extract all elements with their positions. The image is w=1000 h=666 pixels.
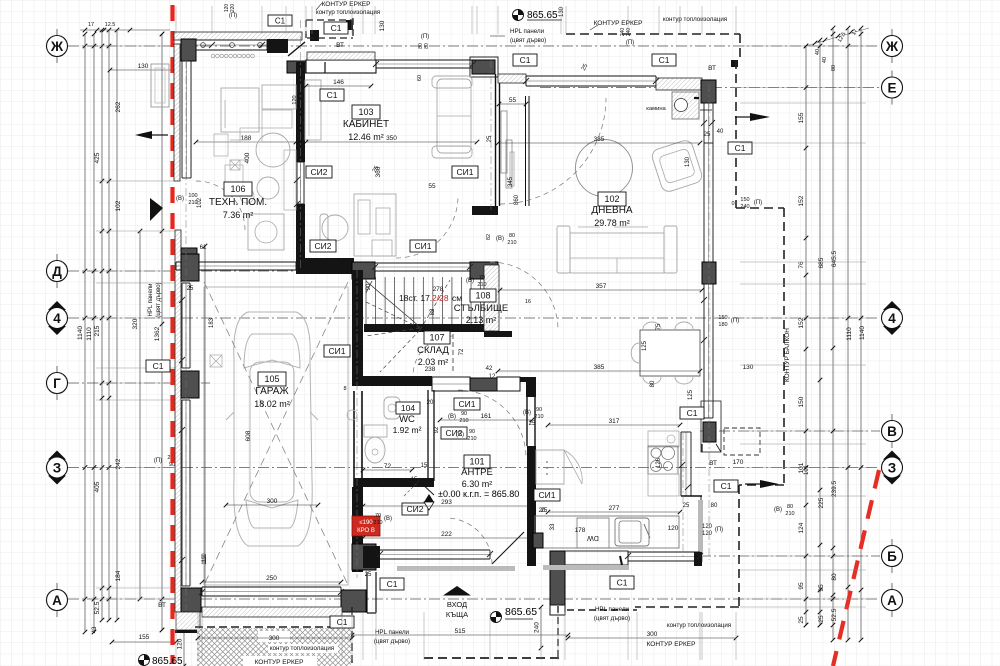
svg-text:608: 608 <box>245 430 252 441</box>
left top small dims <box>80 22 170 32</box>
column top-left corner <box>181 39 196 61</box>
svg-text:80: 80 <box>424 43 430 49</box>
sliding door panels <box>501 111 514 188</box>
svg-text:контур топлоизолация: контур топлоизолация <box>270 645 334 652</box>
grid bubble Е right <box>882 71 903 105</box>
svg-text:(П): (П) <box>754 200 762 206</box>
svg-text:C1: C1 <box>520 55 531 65</box>
stair dashed guides <box>366 280 450 372</box>
svg-text:55: 55 <box>428 183 436 190</box>
tech shelf <box>221 88 259 132</box>
left dim line 215-chain <box>100 28 105 623</box>
note контур еркер bottom-left <box>243 644 338 666</box>
bay pier top right <box>731 60 738 67</box>
svg-text:215: 215 <box>94 325 101 336</box>
window СИ2 in wall 106/103 <box>297 162 304 204</box>
bottom extension lines <box>176 612 736 660</box>
labels П 120-220 top <box>224 4 237 19</box>
bottom dim 155 <box>110 634 179 644</box>
left dim 188 line <box>194 135 299 144</box>
label C1 garage left <box>146 360 170 372</box>
bay contour top <box>566 34 740 60</box>
dining chairs <box>631 322 693 384</box>
room 101 label <box>461 455 493 489</box>
right dim line x833 <box>831 26 836 643</box>
svg-text:15: 15 <box>411 477 418 483</box>
svg-text:ТЕХН. ПОМ.: ТЕХН. ПОМ. <box>209 197 267 208</box>
wall left of entrance <box>352 487 363 572</box>
grid bubble В right <box>882 414 903 448</box>
svg-text:0: 0 <box>731 201 734 207</box>
left extension lines <box>96 46 176 599</box>
svg-text:385: 385 <box>594 364 605 371</box>
svg-text:ВТ: ВТ <box>336 42 344 49</box>
svg-text:102: 102 <box>604 194 619 204</box>
tech unit top <box>262 85 296 109</box>
svg-text:16: 16 <box>525 299 531 305</box>
swing стълбище-дневна <box>490 262 558 330</box>
desk кабинет <box>354 194 396 256</box>
column south 103 a <box>352 262 375 279</box>
svg-text:1140: 1140 <box>77 326 84 340</box>
east window mid <box>704 284 713 418</box>
svg-text:150: 150 <box>798 396 805 407</box>
svg-text:Ж: Ж <box>50 39 64 54</box>
svg-text:130: 130 <box>379 20 386 31</box>
svg-text:124: 124 <box>798 522 805 533</box>
wall jog diagonal <box>288 42 305 56</box>
svg-text:C1: C1 <box>687 408 698 418</box>
left dim line 1362 <box>160 32 165 633</box>
label C1 top right <box>652 54 676 66</box>
grid bubble З right <box>882 451 903 485</box>
top extension lines <box>176 6 736 34</box>
insulation strip left upper <box>174 44 180 181</box>
dim 300 pavement overlay <box>196 631 355 642</box>
wc door leaf <box>404 481 434 496</box>
svg-text:42: 42 <box>486 366 493 372</box>
grid bubble Ж left <box>47 29 68 63</box>
axis line З <box>68 467 880 469</box>
labels П 150/180 right <box>718 315 739 328</box>
label C1 top bay <box>324 22 348 34</box>
svg-text:КЪЩА: КЪЩА <box>446 610 468 619</box>
label C1 garage door <box>380 578 404 590</box>
small black pier bay2 <box>346 20 353 30</box>
svg-text:225: 225 <box>818 497 825 508</box>
svg-text:(цвят дърво): (цвят дърво) <box>510 37 546 44</box>
exterior shutter left <box>151 64 169 107</box>
svg-text:126: 126 <box>656 457 662 468</box>
svg-text:КОНТУР ЕРКЕР: КОНТУР ЕРКЕР <box>255 659 304 666</box>
garage door band <box>202 587 341 596</box>
svg-text:20: 20 <box>539 508 546 514</box>
svg-text:ВТ: ВТ <box>709 460 717 467</box>
grid bubble А left <box>47 583 68 617</box>
level 865.65 porch <box>491 606 538 623</box>
svg-text:C1: C1 <box>387 579 398 589</box>
svg-text:80: 80 <box>711 503 718 509</box>
svg-text:400: 400 <box>244 152 251 163</box>
stair east wall lower <box>490 331 512 334</box>
kitchen sink <box>615 518 650 546</box>
svg-text:161: 161 <box>481 413 492 420</box>
window mullion circles <box>201 43 263 48</box>
label C1 kitchen east <box>680 407 704 419</box>
red label КРО <box>352 516 380 536</box>
svg-text:25: 25 <box>683 503 690 509</box>
svg-text:107: 107 <box>429 333 444 343</box>
small black pier bay <box>310 30 319 41</box>
convector circles row <box>211 54 254 58</box>
svg-text:95: 95 <box>798 582 805 590</box>
wall stairs west upper <box>352 270 363 378</box>
stair treads <box>366 277 481 330</box>
svg-text:52.5: 52.5 <box>831 608 838 621</box>
svg-text:92: 92 <box>434 426 440 433</box>
left label П 240/90 <box>154 455 177 468</box>
garage wall dim chain <box>203 244 208 615</box>
column клад SE <box>470 378 497 391</box>
svg-text:±0.00 к.г.п. = 865.80: ±0.00 к.г.п. = 865.80 <box>438 489 519 499</box>
svg-text:(В): (В) <box>456 432 464 438</box>
label СИ2 wc <box>402 503 428 515</box>
svg-text:277: 277 <box>609 505 620 512</box>
svg-text:865.65: 865.65 <box>152 656 183 666</box>
wc symbols <box>343 386 357 420</box>
labels 240-240 top2 <box>620 28 634 46</box>
axis line Г <box>68 382 210 384</box>
bay contour top-left box <box>306 18 353 40</box>
svg-text:103: 103 <box>358 107 373 117</box>
left dim line 1140 <box>83 32 88 635</box>
svg-text:СИ2: СИ2 <box>407 504 424 514</box>
garage wall window1 <box>182 283 190 368</box>
svg-text:СИ1: СИ1 <box>415 241 432 251</box>
wall jog solid <box>267 39 288 53</box>
svg-text:405: 405 <box>94 481 101 492</box>
svg-text:40: 40 <box>822 57 828 63</box>
axis line В <box>700 430 880 432</box>
svg-text:210: 210 <box>507 240 516 246</box>
label C1 kitchen south <box>610 576 634 589</box>
svg-text:317: 317 <box>609 418 620 425</box>
dim 25 marks <box>187 63 590 578</box>
labels В 80/210 right <box>774 504 795 517</box>
left dim ticks extra <box>83 32 165 633</box>
svg-text:120: 120 <box>702 524 713 530</box>
room 108 label <box>454 289 508 325</box>
column 103 NE <box>472 60 495 74</box>
svg-text:184: 184 <box>115 570 122 581</box>
column 102 NE <box>701 80 716 103</box>
svg-text:КАБИНЕТ: КАБИНЕТ <box>343 119 389 130</box>
kitchen east wall bottom edge <box>681 495 702 497</box>
grid bubble А right <box>882 583 903 617</box>
svg-text:Ж: Ж <box>885 39 899 54</box>
svg-text:ГАРАЖ: ГАРАЖ <box>255 386 289 397</box>
svg-text:320: 320 <box>132 318 139 329</box>
left dim 130 garage <box>108 63 179 72</box>
labels П 150/240 right <box>731 197 762 210</box>
wall антре east lower <box>527 446 536 566</box>
svg-text:1.92 m²: 1.92 m² <box>393 425 422 435</box>
svg-text:80: 80 <box>831 65 837 71</box>
bottom dim 120 vert <box>177 620 187 666</box>
left dim line chain2 <box>107 28 112 623</box>
antre south grey strip <box>397 566 515 571</box>
svg-text:КОНТУР БАЛКОН: КОНТУР БАЛКОН <box>784 328 791 382</box>
grid bubble Б right <box>882 539 903 573</box>
east wall kitchen jog <box>702 444 721 452</box>
east window upper <box>704 103 713 143</box>
svg-text:контур топлоизолация: контур топлоизолация <box>663 16 727 23</box>
sofa кабинет <box>432 76 472 158</box>
kitchen south wall band <box>565 551 628 565</box>
svg-text:HPL панели: HPL панели <box>375 629 410 636</box>
svg-text:18.02 m²: 18.02 m² <box>254 399 290 409</box>
balcony door dashed box <box>724 428 760 455</box>
right dim line x820 <box>818 38 823 628</box>
dim 80 25 <box>683 503 718 509</box>
svg-text:Е: Е <box>887 80 896 95</box>
right extension lines <box>740 46 866 607</box>
room 102 label <box>591 192 633 228</box>
wall антре east upper <box>527 397 535 446</box>
svg-text:(В): (В) <box>448 414 456 420</box>
svg-text:300: 300 <box>267 498 278 505</box>
arrow left <box>135 131 152 139</box>
garage wall window2 <box>182 400 190 586</box>
svg-text:80: 80 <box>650 380 656 387</box>
svg-text:90: 90 <box>366 283 372 290</box>
column garage mid <box>181 371 199 398</box>
svg-text:240: 240 <box>534 622 541 633</box>
svg-text:150: 150 <box>740 197 749 203</box>
svg-text:СТЪЛБИЩЕ: СТЪЛБИЩЕ <box>454 303 508 314</box>
right dim line x861 <box>859 26 864 643</box>
svg-text:(П): (П) <box>626 40 634 46</box>
bottom dim 300 right <box>566 631 739 640</box>
svg-text:102: 102 <box>115 200 122 211</box>
svg-text:300: 300 <box>269 635 280 642</box>
svg-text:119: 119 <box>202 555 208 565</box>
svg-text:СИ1: СИ1 <box>457 167 474 177</box>
svg-text:125: 125 <box>688 389 694 400</box>
label СИ1 антре <box>454 398 480 410</box>
svg-text:865.65: 865.65 <box>505 606 537 618</box>
svg-text:C1: C1 <box>327 90 338 100</box>
left dim line 320 <box>138 229 143 602</box>
swing клад door <box>413 336 453 376</box>
wall 103 north hatch strip <box>307 52 375 60</box>
svg-text:210: 210 <box>467 436 476 442</box>
svg-text:220: 220 <box>230 4 236 13</box>
sofa дневна big <box>557 226 677 273</box>
garage front contour <box>195 607 352 666</box>
stair up line <box>366 281 420 327</box>
dim 293 <box>361 499 533 508</box>
small dark unit kitchen <box>533 533 543 548</box>
floor drain tech <box>230 160 240 170</box>
svg-text:(цвят дърво): (цвят дърво) <box>156 282 162 317</box>
porch left wall <box>367 572 376 613</box>
label СИ2 103 south <box>310 240 336 252</box>
svg-text:70: 70 <box>479 275 485 281</box>
svg-text:(П): (П) <box>229 13 237 19</box>
boiler circle <box>256 133 290 167</box>
level 0.00 <box>424 489 519 510</box>
svg-text:25: 25 <box>487 135 493 142</box>
svg-text:C1: C1 <box>617 578 628 588</box>
svg-text:(П): (П) <box>731 318 739 324</box>
svg-text:125: 125 <box>642 340 648 351</box>
dim 277 <box>546 505 683 514</box>
svg-text:104: 104 <box>401 403 415 413</box>
svg-text:Г: Г <box>53 376 61 391</box>
svg-text:C1: C1 <box>331 23 342 33</box>
svg-text:12: 12 <box>489 374 496 380</box>
wall 103 north window <box>376 60 473 68</box>
black door triangle <box>150 198 163 221</box>
svg-text:210: 210 <box>477 282 486 288</box>
bottom dim 240 vert <box>534 605 544 651</box>
room 105 label <box>254 372 290 409</box>
svg-text:120: 120 <box>702 531 713 537</box>
window jamb ticks <box>179 42 715 595</box>
svg-text:120: 120 <box>177 638 184 649</box>
svg-text:180: 180 <box>718 322 727 328</box>
swing си1 window 102 <box>500 98 606 204</box>
east column lower <box>703 422 716 442</box>
wall 102 NE corner band <box>656 78 702 90</box>
svg-text:80: 80 <box>787 504 793 510</box>
svg-text:1110: 1110 <box>86 327 93 341</box>
kitchen south grey strip <box>543 565 629 570</box>
east column mid <box>702 262 716 284</box>
grid bubble З left <box>47 451 68 485</box>
armchair дневна <box>650 139 704 194</box>
level 865.65 bottom-left <box>139 655 184 666</box>
labels В 80/210 кабинет <box>486 233 517 246</box>
svg-text:25: 25 <box>365 572 372 578</box>
svg-text:(В): (В) <box>384 516 392 522</box>
svg-text:188: 188 <box>241 135 252 142</box>
room 104 label <box>393 402 422 435</box>
svg-text:210: 210 <box>534 414 543 420</box>
wall stair/клад stub <box>484 331 512 337</box>
round rug <box>576 140 633 197</box>
svg-text:350: 350 <box>386 135 397 142</box>
room 107 label <box>417 331 450 367</box>
floor drain <box>210 355 222 367</box>
svg-text:155: 155 <box>139 634 150 641</box>
svg-text:146: 146 <box>333 79 344 86</box>
svg-text:239.5: 239.5 <box>831 480 838 497</box>
fireplace arrow <box>700 109 712 111</box>
wall антре south solid <box>363 546 380 568</box>
svg-text:70: 70 <box>375 513 381 519</box>
column 103 NW <box>287 61 306 73</box>
axis line Ж <box>68 45 880 47</box>
axis line Д <box>68 270 360 272</box>
wall kitchen south window <box>628 552 700 561</box>
kitchen east window <box>681 432 691 496</box>
pavement hatch <box>197 628 351 666</box>
svg-text:43: 43 <box>92 626 98 633</box>
svg-text:1110: 1110 <box>846 327 853 341</box>
svg-text:АНТРЕ: АНТРЕ <box>461 467 493 478</box>
garage SW wall extension <box>175 612 200 633</box>
svg-text:90: 90 <box>461 411 467 417</box>
wall 103 SE bit <box>472 206 498 215</box>
red regulation line vertical <box>170 5 174 664</box>
grid bubble 4 left <box>47 301 68 335</box>
svg-text:293: 293 <box>441 499 452 506</box>
svg-text:Д: Д <box>52 264 62 279</box>
dim 72 wc <box>361 463 428 472</box>
svg-text:4: 4 <box>53 311 61 326</box>
svg-text:238: 238 <box>425 366 436 373</box>
svg-text:278: 278 <box>433 286 444 293</box>
window клад south <box>432 377 470 391</box>
car body <box>226 312 318 546</box>
wall антре north band <box>497 377 520 391</box>
toilet <box>364 425 387 463</box>
wall top 106 window <box>196 40 267 50</box>
east wall mid band <box>704 143 713 262</box>
svg-text:17: 17 <box>88 22 94 28</box>
labels В 70/210 клад <box>466 275 487 288</box>
labels В 70/210 wc <box>373 513 392 526</box>
column porch big <box>550 551 565 615</box>
label СИ1 103 south <box>410 240 436 252</box>
svg-text:515: 515 <box>455 628 466 635</box>
swing антре door <box>458 390 526 458</box>
svg-text:см: см <box>452 293 462 303</box>
dim 300 car <box>224 498 321 507</box>
svg-text:183: 183 <box>209 317 215 328</box>
svg-text:55: 55 <box>509 97 517 104</box>
svg-text:1362: 1362 <box>154 326 161 341</box>
wall клад east dashes <box>452 334 454 372</box>
svg-text:242: 242 <box>115 458 122 469</box>
svg-text:СИ2: СИ2 <box>315 241 332 251</box>
labels В 90/210 scattered <box>456 429 477 442</box>
svg-text:210: 210 <box>785 511 794 517</box>
left label В 100/210 <box>176 193 203 208</box>
kitchen SE wall drop <box>698 496 703 562</box>
svg-text:75: 75 <box>656 323 662 330</box>
svg-text:ДНЕВНА: ДНЕВНА <box>591 205 633 216</box>
label C1 kitchen east2 <box>714 480 738 492</box>
note hpl bottom right <box>594 606 630 622</box>
grid bubble Ж right <box>882 29 903 63</box>
room 103 label <box>343 105 389 142</box>
svg-text:(П): (П) <box>715 527 723 533</box>
porch contour bottom <box>424 606 637 658</box>
grid bubble Д left <box>47 254 68 288</box>
svg-text:6.30 m²: 6.30 m² <box>462 479 493 489</box>
svg-text:150: 150 <box>718 315 727 321</box>
svg-text:(П): (П) <box>154 458 162 464</box>
svg-text:262: 262 <box>115 101 122 112</box>
svg-text:C1: C1 <box>735 143 746 153</box>
svg-text:80: 80 <box>831 573 838 581</box>
wc basin <box>384 397 400 419</box>
svg-text:645.5: 645.5 <box>831 250 838 267</box>
svg-text:250: 250 <box>266 575 277 582</box>
